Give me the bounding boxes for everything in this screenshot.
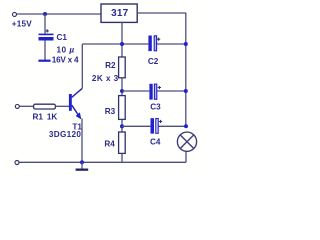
wire C3 right to rail — [157, 90, 186, 92]
C1 terminal bar — [38, 60, 50, 62]
terminal +15V input — [13, 12, 17, 16]
wire node row y44 to C2 and collector corner — [82, 43, 148, 45]
capacitor C4 — [151, 118, 159, 133]
svg-text:R4: R4 — [104, 140, 115, 149]
svg-text:R1 1K: R1 1K — [33, 113, 58, 122]
node J2 — [120, 89, 124, 93]
wire 317 output to right rail — [137, 12, 186, 14]
wire C2 right to rail — [157, 43, 186, 45]
capacitor C1 — [39, 34, 54, 41]
node C3 rail — [184, 89, 188, 93]
wire collector drop — [81, 44, 83, 88]
wire J2 to C3 — [122, 90, 149, 92]
node emitter rail — [80, 160, 84, 164]
wire emitter down to ground rail — [81, 119, 83, 163]
svg-text:16V x 4: 16V x 4 — [52, 55, 79, 64]
wire 317 adj stem down — [121, 22, 123, 57]
wire top rail from +15V terminal to 317 — [17, 13, 101, 15]
capacitor C3 — [149, 84, 156, 100]
C3 polarity plus — [158, 86, 161, 89]
wire R2 to R3 — [121, 78, 123, 96]
node J1 — [120, 42, 124, 46]
node C2 rail — [184, 42, 188, 46]
svg-text:R3: R3 — [105, 107, 116, 116]
resistor R4 — [119, 132, 126, 153]
svg-text:2K x 3: 2K x 3 — [92, 74, 119, 83]
wire lamp bottom stem — [185, 151, 187, 162]
wire R3 to R4 — [121, 119, 123, 132]
wire right rail — [185, 13, 187, 127]
terminal input mid — [15, 104, 19, 108]
resistor R1 — [34, 104, 56, 109]
svg-text:R2: R2 — [105, 61, 116, 70]
wire C4 right to lamp node — [159, 125, 186, 127]
node J3 — [120, 124, 124, 128]
svg-text:C3: C3 — [150, 102, 161, 111]
svg-text:C1: C1 — [57, 33, 68, 42]
svg-text:C2: C2 — [148, 57, 159, 66]
wire input terminal to R1 — [20, 105, 34, 107]
terminal input bottom — [15, 161, 19, 165]
svg-text:+15V: +15V — [12, 20, 32, 29]
resistor R3 — [119, 96, 126, 120]
svg-text:C4: C4 — [150, 138, 161, 147]
svg-text:317: 317 — [111, 8, 129, 19]
wire R4 to ground rail — [121, 153, 123, 162]
svg-text:10 µ: 10 µ — [57, 46, 75, 55]
wire C1 lower stem — [44, 41, 46, 61]
regulator U1 317 — [101, 4, 137, 22]
C2 polarity plus — [157, 38, 160, 41]
wire bottom ground rail — [20, 161, 187, 163]
svg-text:3DG120: 3DG120 — [49, 130, 81, 139]
C4 polarity plus — [159, 120, 162, 123]
wire R1 to base — [56, 105, 70, 107]
lamp EL1 — [177, 132, 196, 151]
capacitor C2 — [148, 36, 156, 52]
wire C1 upper stem — [44, 14, 46, 34]
transistor T1 — [69, 88, 82, 119]
resistor R2 — [119, 57, 126, 78]
wire J3 to C4 — [122, 125, 150, 127]
node junction C1 top — [43, 12, 47, 16]
node lamp top — [184, 124, 188, 128]
ground — [76, 162, 89, 171]
capacitor C1 polarity plus — [46, 29, 49, 32]
